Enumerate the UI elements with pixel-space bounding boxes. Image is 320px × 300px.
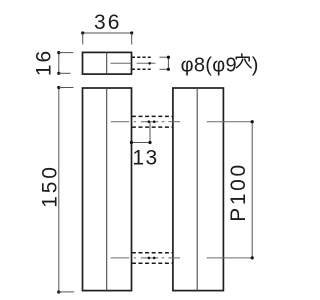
- hole 2 hidden lines: [132, 253, 173, 264]
- svg-text:φ8(φ9: φ8(φ9: [181, 54, 237, 76]
- dimension 16: [32, 49, 73, 76]
- hole 1 centerline: [111, 120, 253, 123]
- label phi8(phi9 hole): [181, 54, 259, 76]
- hole 2 centerline: [111, 257, 253, 260]
- front view left bar divider line: [106, 88, 108, 291]
- svg-text:): ): [252, 54, 259, 76]
- hand-drawn kanji ana (hole): [236, 54, 251, 68]
- svg-text:150: 150: [39, 164, 62, 207]
- dimension 13: [130, 122, 159, 170]
- front view left bar body: [83, 88, 132, 291]
- svg-text:36: 36: [94, 11, 121, 34]
- top view centerline: [111, 62, 156, 65]
- dimension 150: [39, 86, 75, 294]
- svg-text:13: 13: [132, 147, 158, 170]
- top view hidden hole line lower (phi9): [132, 68, 151, 70]
- top view body: [83, 52, 132, 74]
- svg-text:16: 16: [32, 49, 55, 76]
- front view right bar divider line: [196, 88, 198, 291]
- front view right bar body: [173, 88, 224, 291]
- svg-text:P100: P100: [227, 162, 250, 221]
- dimension phi8 leader lines and dots: [160, 56, 170, 71]
- dimension 36: [81, 11, 133, 45]
- top view hidden hole line upper (phi9): [132, 56, 151, 58]
- dimension P100: [227, 120, 254, 259]
- hole 1 hidden lines: [132, 116, 173, 127]
- top view divider line: [106, 52, 108, 74]
